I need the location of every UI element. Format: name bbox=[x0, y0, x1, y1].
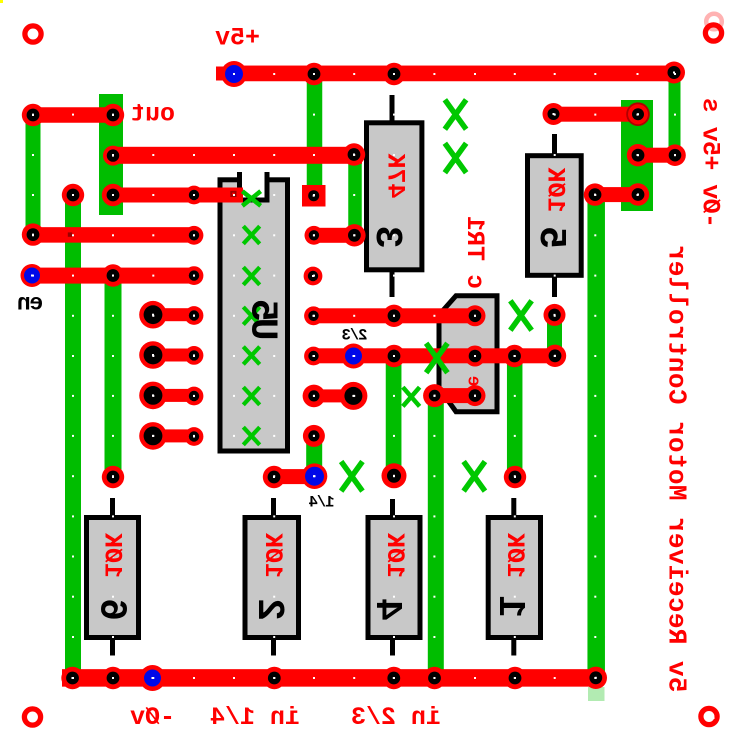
pad U5 pin (194,436) bbox=[185, 427, 204, 446]
resistor R4 lead top bbox=[390, 499, 395, 517]
pad U5 pin (194,396) bbox=[185, 387, 204, 406]
mounting hole ghost bbox=[706, 14, 722, 30]
wire green wide (637,100)-(637,211) bbox=[621, 100, 653, 211]
wire green (314,74)-(314,195) to U5 pin1 bbox=[307, 74, 323, 190]
junction marker (233,194) bbox=[230, 191, 236, 197]
pad U5 pin (314,235) bbox=[305, 226, 324, 245]
resistor R3 body bbox=[367, 123, 422, 270]
svg-text:out: out bbox=[130, 100, 175, 129]
X mark TR1 left bbox=[428, 345, 446, 370]
wire connector stub row4 bbox=[153, 308, 194, 321]
resistor R4 body bbox=[368, 518, 420, 638]
pad U5 pin (314,436) bbox=[303, 425, 325, 447]
pad (113,155) bbox=[103, 146, 123, 166]
junction marker (70,234) bbox=[68, 232, 72, 236]
pad TR1 chamfer (435,396) bbox=[423, 384, 446, 407]
pad U5 pin (313,316) bbox=[304, 306, 323, 325]
wire (113,155)-(362,155) bbox=[113, 147, 362, 164]
X mark U5 notch bbox=[244, 193, 259, 205]
pad R3 bottom (394,316) bbox=[383, 305, 405, 327]
pad U5 pin1 square (314,195) bbox=[302, 185, 326, 207]
pad (113,195) bbox=[102, 184, 124, 206]
wire connector stub row6 bbox=[153, 389, 194, 402]
resistor R2 body bbox=[245, 518, 299, 638]
svg-text:in 1/4: in 1/4 bbox=[210, 703, 300, 732]
wire green (73,195)-(73,678) bbox=[65, 195, 81, 672]
pad connector big (153,355) bbox=[139, 341, 167, 369]
wire (554,114)-(638,114) bbox=[554, 107, 638, 122]
svg-text:1ØK: 1ØK bbox=[258, 533, 287, 578]
transistor TR1 body bbox=[439, 296, 497, 412]
pad (674,73) bbox=[663, 62, 685, 84]
wire green (515,356)-(515,477) bbox=[507, 356, 523, 477]
pad bus (596,678) bbox=[585, 667, 607, 689]
wire (274,477)-(314,477) bbox=[274, 469, 315, 484]
IC U1 body U5 bbox=[220, 180, 288, 451]
svg-text:1: 1 bbox=[488, 595, 531, 618]
wire connector stub row7 bbox=[153, 429, 194, 442]
wire (638,155)-(675,155) bbox=[638, 148, 675, 163]
pad (73,195) bbox=[62, 184, 84, 206]
resistor R5 body bbox=[528, 156, 582, 276]
X mark TR1 right bbox=[512, 303, 530, 328]
pad (354,154.5) bbox=[343, 143, 365, 165]
via blue +5v (234,74) bbox=[221, 61, 247, 87]
wire gnd bus (62,678)-(597,678) bbox=[62, 669, 597, 687]
X mark R3 pin2 bbox=[446, 145, 464, 170]
pad (595,195) bbox=[584, 183, 606, 205]
svg-text:47K: 47K bbox=[381, 153, 410, 198]
resistor R5 lead bottom bbox=[552, 276, 557, 297]
pad (675,155) bbox=[664, 144, 686, 166]
resistor R6 lead top bbox=[110, 498, 115, 517]
X mark U5 (276) bbox=[245, 269, 259, 284]
resistor R4 lead bottom bbox=[390, 638, 395, 656]
X mark via F bbox=[465, 464, 483, 489]
pad bus (72,678) bbox=[61, 667, 83, 689]
X mark R4 pin bbox=[404, 389, 418, 405]
pad bus (515,678) bbox=[504, 667, 526, 689]
pad connector big (153,315) bbox=[139, 301, 167, 329]
mounting hole bottom-left bbox=[24, 709, 40, 725]
pad U5 pin (314,396) bbox=[303, 385, 326, 408]
via blue en (32,275) bbox=[21, 264, 44, 287]
wire (314,235)-(354,235) bbox=[314, 228, 355, 243]
svg-text:2/3: 2/3 bbox=[342, 326, 368, 344]
pad bus (113,678) bbox=[102, 667, 124, 689]
X mark U5 (235) bbox=[245, 228, 259, 243]
svg-text:U5: U5 bbox=[241, 301, 284, 341]
svg-text:-Øv +5v s: -Øv +5v s bbox=[696, 98, 725, 228]
pad U5 pin (313,356) bbox=[304, 347, 323, 366]
wire (595,195)-(638,195) bbox=[595, 187, 638, 202]
pad R5 top (554,114) bbox=[543, 103, 565, 125]
svg-text:2: 2 bbox=[247, 598, 290, 621]
IC U5 notch bbox=[242, 170, 265, 198]
wire (33,115)-(113,115) bbox=[33, 107, 113, 123]
mounting hole top-right bbox=[705, 25, 721, 41]
svg-text:1/4: 1/4 bbox=[309, 494, 335, 512]
pad connector big (153,436) bbox=[139, 422, 167, 450]
pad out-B (113,115) bbox=[102, 104, 124, 126]
wire (314,396)-(353,396) bbox=[314, 389, 354, 402]
resistor R1 lead top bbox=[511, 498, 516, 517]
svg-text:1ØK: 1ØK bbox=[500, 533, 529, 578]
resistor R3 lead top bbox=[390, 95, 395, 122]
svg-text:in 2/3: in 2/3 bbox=[351, 703, 441, 732]
wire green net-out left (33,115)-(33,235) bbox=[26, 115, 41, 235]
svg-text:1ØK: 1ØK bbox=[98, 533, 127, 578]
pad (314,74) bbox=[303, 63, 325, 85]
pad (113,275) bbox=[102, 264, 124, 286]
svg-text:en: en bbox=[18, 291, 43, 317]
pad out-A (33,115) bbox=[22, 104, 44, 126]
wire en row (32,275)-(194,276) bbox=[32, 268, 194, 284]
wire green ghost below bus bbox=[588, 687, 605, 701]
X mark U5 (355.5) bbox=[245, 348, 259, 363]
via blue (353,356) bbox=[341, 344, 366, 369]
pad (394,356) bbox=[383, 345, 405, 367]
svg-text:3: 3 bbox=[365, 226, 408, 249]
pad bus (394,678) bbox=[383, 667, 405, 689]
wire green (113,94)-(113,215) wide bbox=[99, 94, 123, 215]
X mark U5 (315.8) bbox=[245, 309, 259, 324]
X mark U5 (396) bbox=[245, 389, 259, 404]
pad R2 top (274,477) bbox=[263, 466, 285, 488]
svg-text:-Øv: -Øv bbox=[130, 703, 175, 732]
mounting hole bottom-right bbox=[701, 708, 717, 724]
X mark via E bbox=[343, 464, 361, 489]
pad TR1 c (475,316) bbox=[465, 305, 486, 326]
svg-text:+5v: +5v bbox=[215, 24, 260, 53]
wire green (113,276)-(113,477) bbox=[105, 276, 122, 477]
wire green (554,315)-(554,356) bbox=[547, 315, 562, 356]
wire connector stub row5 bbox=[153, 349, 194, 362]
resistor R1 body bbox=[488, 518, 540, 638]
pad U5 pin (313,276) bbox=[304, 267, 323, 286]
pad U5 pin (194,276) bbox=[185, 266, 204, 285]
pad R4 top (394,476) bbox=[382, 463, 407, 488]
pad connector big (153,395) bbox=[139, 382, 167, 410]
wire (313,316)-(475,316) bbox=[314, 308, 476, 323]
wire (113,195)-(243,195) bbox=[113, 188, 243, 203]
resistor R5 lead top bbox=[552, 134, 557, 155]
svg-text:TR1: TR1 bbox=[460, 216, 489, 261]
svg-text:1ØK: 1ØK bbox=[380, 533, 409, 578]
svg-text:c: c bbox=[460, 274, 489, 289]
pad TR1 e (475,396) bbox=[465, 385, 486, 406]
svg-text:6: 6 bbox=[90, 598, 133, 621]
resistor R3 lead bottom bbox=[390, 270, 395, 297]
resistor R2 lead top bbox=[271, 498, 276, 517]
resistor R2 lead bottom bbox=[271, 638, 276, 656]
svg-text:5: 5 bbox=[529, 226, 572, 249]
pad (638,195) bbox=[627, 183, 649, 205]
resistor R1 lead bottom bbox=[511, 638, 516, 656]
pad (33,234) bbox=[22, 223, 44, 245]
pad (354,235) bbox=[343, 224, 365, 246]
wire +5v tab bbox=[216, 67, 236, 81]
X mark R3 pin bbox=[446, 102, 464, 127]
wire +5v row (234,74)-(674,73) bbox=[228, 66, 674, 82]
via blue 1/4 (314,476) bbox=[302, 463, 328, 489]
pad bus (274,678) bbox=[263, 667, 285, 689]
pad bus (434,678) bbox=[423, 667, 445, 689]
svg-text:e: e bbox=[463, 376, 483, 387]
wire green (354,155)-(354,235) bbox=[348, 155, 362, 235]
pad U5 pin (194,355) bbox=[185, 346, 204, 365]
wire green (596,195)-(596,678) bbox=[587, 195, 605, 672]
wire (313,356)-(555,356) bbox=[314, 348, 556, 363]
mounting hole top-left bbox=[25, 26, 41, 42]
pad (638,155) bbox=[627, 144, 649, 166]
svg-text:4: 4 bbox=[365, 598, 408, 621]
resistor R6 lead bottom bbox=[110, 638, 115, 656]
pad TR1 b (475,356) bbox=[465, 346, 486, 367]
pad R1 top (515,477) bbox=[504, 466, 526, 488]
pad (555,356) bbox=[544, 345, 566, 367]
wire green (674,73)-(674,155) bbox=[669, 73, 681, 155]
corner artifact bbox=[0, 0, 3, 3]
pad R6 top (113,477) bbox=[102, 466, 124, 488]
wire (33,234)-(194,235) bbox=[33, 227, 194, 243]
X mark U5 (436) bbox=[245, 429, 259, 444]
resistor R6 body bbox=[87, 518, 139, 638]
pad (394,74) bbox=[383, 63, 405, 85]
wire green stub (314,436)-(314,477) bbox=[306, 436, 322, 476]
pad big (353,396) bbox=[339, 382, 367, 410]
svg-text:5v Receiver Motor Controller: 5v Receiver Motor Controller bbox=[661, 244, 691, 692]
svg-text:1ØK: 1ØK bbox=[540, 167, 569, 212]
pad R5 bottom (554,315) bbox=[544, 304, 566, 326]
via blue -0v (152,678) bbox=[140, 665, 166, 691]
wire green (435,396)-(435,678) bbox=[428, 395, 444, 672]
wire (435,396)-(475,396) bbox=[435, 388, 475, 403]
pad (514,356) bbox=[503, 345, 525, 367]
wire green (394,356)-(394,477) bbox=[386, 356, 402, 477]
pad U5 pin (194,315) bbox=[185, 306, 204, 325]
pad U5 pin (194,195) bbox=[185, 186, 204, 205]
pad U5 pin (194,235) bbox=[185, 226, 204, 245]
pad dark ring (638,114) bbox=[626, 102, 650, 126]
